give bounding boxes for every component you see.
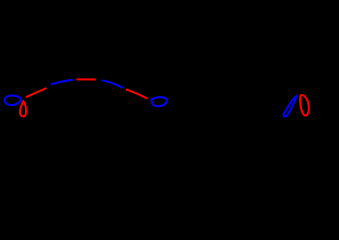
blue loop middle	[151, 97, 167, 106]
blue loop left	[4, 95, 21, 105]
blue petal right	[283, 96, 296, 117]
red dash apex	[76, 78, 95, 80]
red petal right	[300, 95, 309, 116]
red teardrop loop left	[20, 101, 26, 116]
blue dash rising	[51, 80, 73, 85]
blue dash descending	[101, 80, 122, 88]
red dash descending	[126, 89, 147, 98]
red dash rising left	[26, 88, 47, 97]
